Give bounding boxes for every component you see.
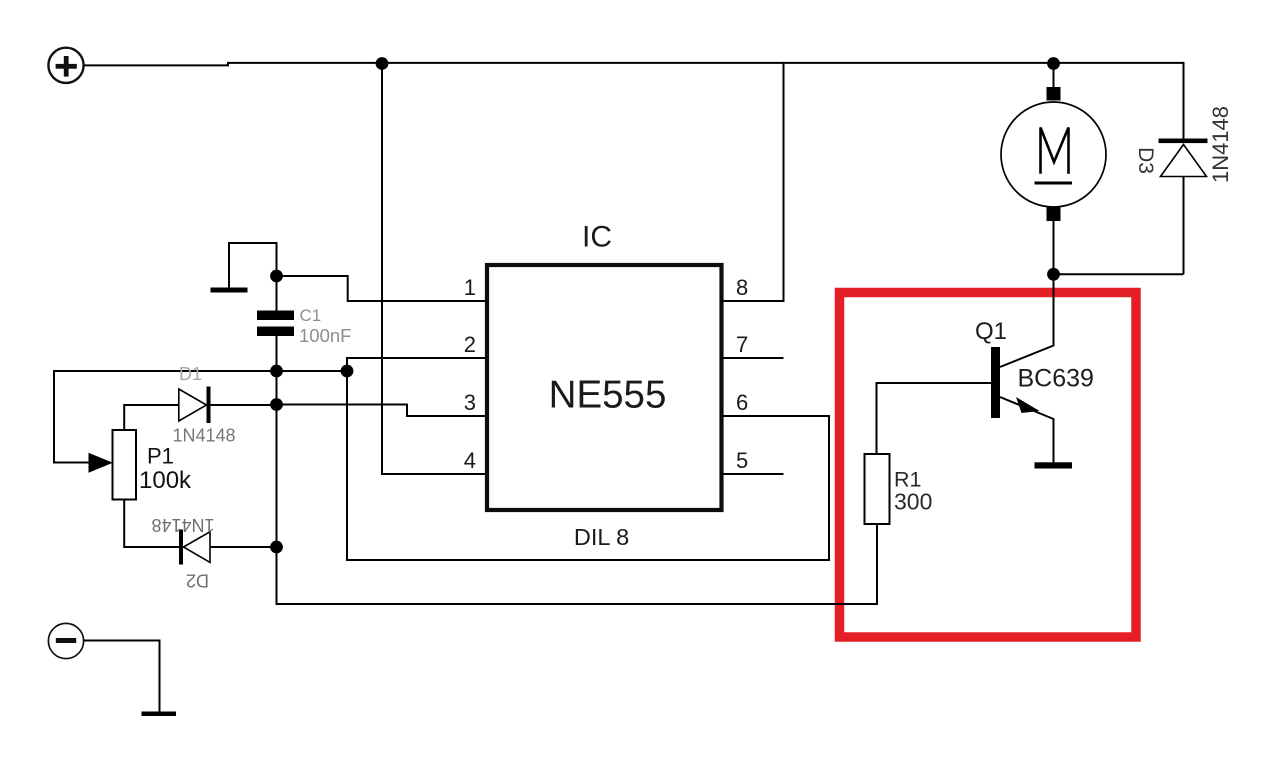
svg-text:BC639: BC639 <box>1018 364 1094 392</box>
wire minus terminal to ground <box>84 641 160 712</box>
potentiometer P1 <box>89 405 179 547</box>
svg-text:Q1: Q1 <box>975 318 1007 345</box>
ground symbol bottom left <box>142 712 177 717</box>
svg-text:6: 6 <box>736 390 748 415</box>
svg-text:100k: 100k <box>139 467 192 494</box>
wire top supply rail <box>84 63 1184 140</box>
ground symbol top left <box>211 243 277 293</box>
junction node C1 bottom <box>270 365 283 378</box>
wire left net down to potentiometer wiper <box>54 371 277 463</box>
wire pin 5 stub <box>722 473 784 475</box>
svg-text:2: 2 <box>464 332 476 357</box>
wire top rail to motor terminal <box>1053 64 1055 89</box>
svg-text:DIL 8: DIL 8 <box>574 524 629 550</box>
wire C1 top junction to pin 1 <box>277 276 488 301</box>
junction node pin2/pin6 net <box>341 365 354 378</box>
wire junction to D3 branch <box>1054 273 1184 275</box>
svg-text:1N4148: 1N4148 <box>1208 106 1233 183</box>
wire motor bottom to junction <box>1053 221 1055 274</box>
red highlight box <box>840 293 1137 638</box>
minus terminal <box>48 623 83 658</box>
svg-text:D3: D3 <box>1134 147 1157 174</box>
junction node at top rail x=1053 (motor branch) <box>1047 57 1060 70</box>
junction node below motor <box>1047 268 1060 281</box>
vertical net wire to bottom and R1 <box>277 371 878 604</box>
svg-text:100nF: 100nF <box>299 325 351 346</box>
wire C1 bottom junction to x=347 junction <box>277 370 348 372</box>
capacitor C1 <box>257 276 294 371</box>
wire junction to pin 3 with jog <box>277 405 488 417</box>
svg-text:3: 3 <box>464 390 476 415</box>
svg-text:D2: D2 <box>186 571 209 591</box>
svg-text:1N4148: 1N4148 <box>151 515 214 535</box>
diode D3 <box>1159 139 1208 177</box>
svg-text:4: 4 <box>464 448 476 473</box>
junction node D1 / pin3 <box>270 398 283 411</box>
wire from top rail down to pin 4 <box>382 64 487 475</box>
transistor Q1 <box>877 274 1054 462</box>
resistor R1 <box>865 454 890 524</box>
svg-text:300: 300 <box>894 488 932 514</box>
junction node D2 <box>270 541 283 554</box>
wire pin 2 jog <box>347 358 487 371</box>
diode D1 <box>179 387 277 424</box>
motor M1 <box>1001 87 1106 221</box>
svg-text:8: 8 <box>736 275 748 300</box>
svg-text:1N4148: 1N4148 <box>173 426 236 446</box>
wire pin 8 to top rail <box>722 64 784 302</box>
plus terminal <box>48 48 83 83</box>
ground symbol at Q1 emitter <box>1035 462 1073 468</box>
svg-text:5: 5 <box>736 448 748 473</box>
svg-text:C1: C1 <box>300 306 322 325</box>
svg-text:NE555: NE555 <box>549 374 667 417</box>
svg-text:D1: D1 <box>179 364 202 384</box>
junction node C1 top <box>270 270 283 283</box>
svg-text:7: 7 <box>736 332 748 357</box>
junction node at top rail x=382 <box>376 57 389 70</box>
svg-text:IC: IC <box>582 221 612 254</box>
IC NE555 <box>487 265 722 510</box>
wire pin 7 stub <box>722 357 784 359</box>
svg-text:1: 1 <box>464 275 476 300</box>
wire D3 anode down to branch wire <box>1183 177 1185 275</box>
diode D2 <box>179 530 277 565</box>
svg-text:P1: P1 <box>147 444 174 469</box>
wire pin 6 loop to node at x=347 <box>347 371 829 560</box>
